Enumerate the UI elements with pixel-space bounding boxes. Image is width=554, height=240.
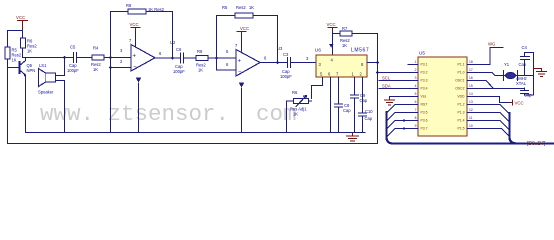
wire U6 pin 8 out to pull-up node [367, 62, 378, 64]
svg-text:1K: 1K [249, 5, 254, 10]
resistor R7 (output pull-up) [340, 26, 352, 48]
node dot output junction U3 [276, 61, 279, 64]
svg-text:VCC: VCC [515, 101, 524, 106]
IC U5 MCU body [418, 51, 467, 137]
svg-text:1: 1 [415, 60, 417, 64]
wire R6 bottom to collector node [22, 48, 24, 58]
wire U5 pin17 (OSC1) to crystal [467, 73, 534, 76]
wire U5 pin9 + bus entry [387, 129, 419, 138]
svg-text:VCC: VCC [16, 15, 25, 20]
svg-text:C3: C3 [283, 52, 289, 57]
U6 pin 5 hook to RV1 [312, 77, 323, 99]
potentiometer RV1 Res Adj [290, 90, 309, 117]
svg-text:1K: 1K [198, 68, 203, 73]
svg-text:P1.3: P1.3 [458, 111, 465, 115]
svg-text:Cap: Cap [365, 116, 373, 121]
svg-text:14: 14 [469, 92, 473, 96]
junction arrow on VCC stem [329, 44, 334, 48]
wire feedback top row [111, 11, 129, 13]
wire speaker bottom terminal down to ground rail [56, 81, 65, 133]
bus (right, thick) joining bottom bus [510, 113, 517, 144]
svg-text:5: 5 [415, 92, 417, 96]
svg-text:VDD: VDD [457, 95, 465, 99]
wire C3 to U6 pin 3 [291, 62, 317, 64]
svg-text:7: 7 [235, 43, 238, 48]
wire feedback top row stage2 [217, 15, 236, 17]
node dot feedback junction stage2 [215, 57, 218, 60]
svg-text:P1.4: P1.4 [458, 119, 465, 123]
wire U5 pin12 + bus entry [467, 113, 510, 123]
wire C5 to R4 [77, 57, 93, 59]
svg-text:2: 2 [120, 59, 123, 64]
svg-text:5: 5 [226, 49, 229, 54]
resistor R8 (feedback) [126, 3, 165, 14]
svg-text:P1.0: P1.0 [458, 71, 465, 75]
svg-text:C6: C6 [176, 47, 182, 52]
svg-text:18: 18 [469, 60, 473, 64]
node dot speaker tap [63, 56, 66, 59]
svg-text:3: 3 [120, 48, 123, 53]
wire left branch down to R5 [7, 31, 9, 48]
wire U5 pin1 stub [408, 64, 418, 66]
svg-text:7: 7 [129, 38, 132, 43]
wire feedback left vertical stage2 [216, 16, 218, 71]
VCC power port (top-left) [16, 15, 28, 31]
wire feedback to output junction stage2 [253, 16, 278, 63]
svg-text:VCC: VCC [327, 22, 336, 27]
svg-text:P3.7: P3.7 [421, 127, 428, 131]
svg-text:1K: 1K [93, 67, 98, 72]
svg-text:100pF: 100pF [67, 68, 79, 73]
svg-text:15: 15 [469, 84, 473, 88]
svg-text:Speaker: Speaker [38, 90, 54, 95]
wire - input [111, 67, 132, 69]
wire pull-up node vertical down to bottom net [377, 34, 379, 144]
resistor R5 (base bias, vertical) [5, 47, 22, 63]
svg-text:P3.6: P3.6 [421, 119, 428, 123]
svg-text:Vss: Vss [421, 95, 427, 99]
crystal Y1 [504, 62, 527, 86]
svg-text:SCL: SCL [382, 76, 391, 81]
junction dot pin9 wire [403, 127, 405, 129]
ground symbol (crystal) [534, 69, 547, 77]
op-amp U1 triangle [131, 45, 155, 72]
wire U5 pin11 + bus entry [467, 121, 510, 131]
svg-text:OSC1: OSC1 [455, 79, 464, 83]
svg-text:P3.3: P3.3 [421, 79, 428, 83]
svg-text:P1.5: P1.5 [458, 127, 465, 131]
svg-text:+: + [238, 59, 242, 65]
node dot output junction U1 [171, 57, 174, 60]
svg-text:17: 17 [469, 68, 473, 72]
capacitor C1 (top, on OSC1) [519, 45, 534, 76]
wire R5 bottom / left rail down to bottom net [7, 59, 9, 144]
watermark [40, 101, 554, 127]
wire U5 pin18 up to WG net [467, 48, 503, 65]
node dot U6 output junction [376, 61, 379, 64]
svg-text:10: 10 [469, 124, 473, 128]
resistor R9 (horizontal) [196, 49, 208, 73]
VCC power port (right, pin14) [509, 100, 524, 106]
ground symbol on rail [347, 133, 359, 142]
VCC power port op-amp U1 [130, 22, 141, 32]
wire VCC down to U6 pin 4 [332, 31, 334, 55]
ground rail (analog) [26, 132, 366, 134]
wire - input stage2 [217, 69, 237, 71]
svg-text:8: 8 [415, 116, 417, 120]
node dot - input junction [109, 66, 112, 69]
resistor R6 (bias, vertical) [21, 38, 38, 54]
capacitor C2 (bottom, on OSC2) [521, 76, 534, 98]
svg-text:C5: C5 [70, 45, 76, 50]
svg-text:Cap: Cap [360, 98, 368, 103]
junction dot pin8 wire [403, 119, 405, 121]
svg-text:[D0..D7]: [D0..D7] [527, 141, 546, 147]
svg-text:9: 9 [415, 124, 417, 128]
VCC power port op-amp U3 [237, 26, 249, 36]
wire C6 to R9 [184, 57, 197, 59]
resistor R7 feedback stage2 [222, 5, 254, 18]
op-amp U1 output wire [155, 57, 180, 59]
wire VCC node to R7 [333, 33, 341, 35]
svg-text:4: 4 [415, 84, 417, 88]
wire U5 pin8 + bus entry [387, 121, 419, 130]
svg-text:100pF: 100pF [280, 74, 292, 79]
node dot pin2 branch [376, 71, 379, 74]
svg-text:P3.4: P3.4 [421, 87, 428, 91]
svg-text:R7: R7 [342, 26, 348, 31]
capacitor C8 on pin 7 [335, 77, 352, 133]
svg-text:−: − [133, 65, 137, 71]
op-amp U3 triangle [236, 50, 260, 77]
wire feedback left vertical (to - input and ground rail) [110, 12, 112, 133]
svg-text:C4: C4 [522, 45, 528, 50]
svg-text:12: 12 [469, 108, 473, 112]
bus (left, thick) down and along bottom [387, 112, 554, 144]
svg-text:6: 6 [264, 56, 267, 61]
wire VCC to pin 7 [135, 32, 137, 46]
capacitor C9 on pin 1 [351, 77, 368, 133]
svg-text:R5: R5 [222, 5, 228, 10]
wire U5 pin16 (OSC2) to crystal [467, 81, 525, 89]
node dot feedback junction [109, 56, 112, 59]
svg-text:P1.1: P1.1 [458, 63, 465, 67]
svg-text:1K: 1K [342, 43, 347, 48]
svg-text:R6: R6 [292, 90, 298, 95]
svg-text:1K: 1K [12, 58, 17, 63]
U5 right pin names [455, 63, 465, 131]
svg-text:11: 11 [469, 116, 473, 120]
wire speaker top terminal up to signal [56, 58, 65, 76]
svg-text:XTAL: XTAL [516, 81, 527, 86]
svg-text:RST: RST [421, 103, 428, 107]
wire VCC to pin 7 stage2 [241, 36, 243, 51]
pin 4 arrow below op-amp U1 [138, 83, 140, 133]
wire U5 pin10 + bus entry [467, 129, 510, 137]
svg-text:16: 16 [469, 76, 473, 80]
svg-text:R9: R9 [197, 49, 203, 54]
svg-text:100pF: 100pF [173, 69, 185, 74]
wire U5 pin14 [467, 97, 509, 103]
svg-text:VCC: VCC [130, 22, 139, 27]
speaker LS1 [38, 63, 56, 95]
IC U6 LM567 body [315, 48, 369, 78]
svg-text:P3.5: P3.5 [421, 111, 428, 115]
svg-text:6: 6 [415, 100, 417, 104]
svg-text:7: 7 [415, 108, 417, 112]
U5 left pin numbers [415, 60, 417, 128]
wire U6 pin 6 down to ground rail [330, 77, 332, 133]
svg-text:R8: R8 [126, 3, 132, 8]
svg-text:C10: C10 [365, 109, 373, 114]
wire down to R6 top [22, 31, 24, 39]
svg-text:6: 6 [159, 51, 162, 56]
svg-text:LM567: LM567 [351, 48, 369, 54]
wire base [8, 67, 20, 69]
wire VCC rail to R5 branch [8, 30, 23, 32]
wire U5 pin6 + bus entry [387, 105, 419, 114]
wire U5 pin2 from U6 output node [378, 72, 419, 74]
net label SCL / wire U5 pin3 [379, 80, 418, 82]
net label SDA / wire U5 pin4 [379, 88, 418, 90]
svg-text:U2: U2 [170, 40, 176, 45]
svg-text:U5: U5 [419, 51, 425, 56]
svg-text:NPN: NPN [27, 68, 36, 73]
resistor R4 (horizontal) [91, 46, 104, 73]
svg-text:13: 13 [469, 100, 473, 104]
svg-text:Res2: Res2 [236, 5, 246, 10]
svg-text:Y1: Y1 [504, 62, 510, 67]
wire U5 pin7 + bus entry [387, 113, 419, 122]
capacitor C10 on pin 2 [359, 77, 374, 133]
wire U5 pin5 + ground [394, 96, 418, 98]
wire feedback to output junction [146, 12, 173, 59]
wire R4 to op-amp U1 + input [104, 57, 131, 59]
pin 4 arrow below op-amp U3 [241, 88, 243, 133]
op-amp U3 output wire [260, 62, 287, 64]
svg-text:6: 6 [226, 62, 229, 67]
capacitor C6 (coupling) [173, 47, 185, 74]
svg-text:Cap: Cap [343, 108, 351, 113]
U5 left pin names [421, 63, 428, 131]
svg-text:VCC: VCC [240, 26, 249, 31]
wire R9 to op-amp U3 + input [208, 57, 236, 59]
svg-text:LS1: LS1 [39, 63, 47, 68]
svg-text:SDA: SDA [382, 84, 391, 89]
wire collector to signal node [25, 58, 27, 61]
svg-text:Cap: Cap [519, 62, 527, 67]
svg-text:3: 3 [306, 56, 309, 61]
svg-text:Cap: Cap [524, 93, 532, 98]
svg-text:R4: R4 [93, 46, 99, 51]
svg-text:U3: U3 [277, 46, 283, 51]
svg-text:P1.2: P1.2 [458, 103, 465, 107]
capacitor C3 (coupling to U6) [280, 52, 292, 79]
transistor Q5 NPN [20, 61, 36, 77]
svg-text:2: 2 [415, 68, 417, 72]
wire RV1 right end [309, 100, 312, 102]
svg-text:OSC2: OSC2 [455, 87, 464, 91]
svg-text:P3.2: P3.2 [421, 71, 428, 75]
wire RV1 left down to ground rail [287, 101, 294, 133]
svg-text:3: 3 [415, 76, 417, 80]
bottom net wire (U6 output to Q5 base rail) [8, 143, 378, 145]
capacitor C5 (coupling) [67, 45, 79, 74]
svg-text:P3.1: P3.1 [421, 63, 428, 67]
VCC power port U6 [327, 22, 338, 31]
U5 right pin numbers [469, 60, 473, 128]
wire signal row (collector to C5) [23, 57, 73, 59]
svg-text:1K: 1K [293, 112, 298, 117]
svg-text:1K: 1K [27, 49, 32, 54]
svg-text:−: − [238, 70, 242, 76]
svg-text:+: + [133, 54, 137, 60]
wire U5 pin13 + bus entry [467, 105, 510, 115]
wire R7 to output node [352, 33, 378, 35]
wire emitter down to ground rail [25, 75, 27, 133]
svg-text:WG: WG [488, 42, 496, 47]
svg-text:U6: U6 [315, 48, 321, 53]
